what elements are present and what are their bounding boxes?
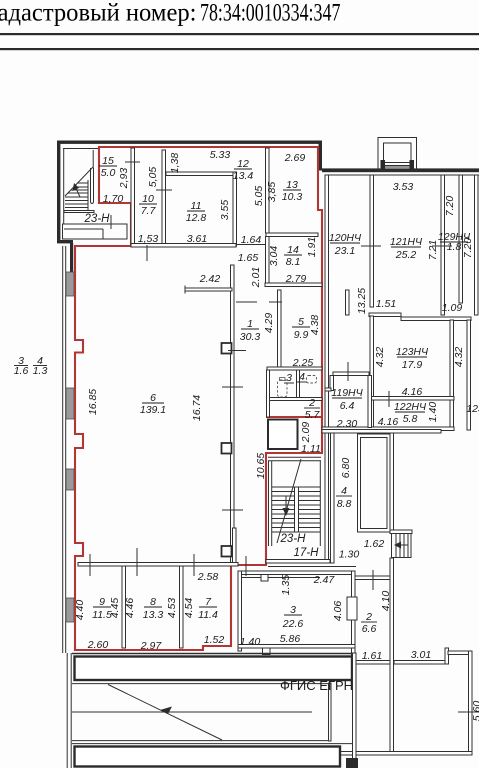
- svg-text:2.25: 2.25: [292, 357, 314, 369]
- bottom-right room step horizontal: [448, 651, 472, 655]
- wall room13 left: [266, 148, 270, 233]
- room3 bottom wall: [238, 645, 355, 649]
- svg-text:23-Н: 23-Н: [84, 213, 111, 225]
- svg-text:5: 5: [298, 316, 304, 328]
- svg-text:Кадастровый номер:: Кадастровый номер:: [0, 0, 197, 27]
- wall 121-129 divider: [441, 175, 445, 315]
- svg-text:4.29: 4.29: [263, 313, 275, 334]
- svg-text:ФГИС ЕГРН: ФГИС ЕГРН: [280, 678, 353, 693]
- wall 123 bottom: [370, 397, 454, 401]
- tick x246: [245, 556, 247, 576]
- svg-text:1.51: 1.51: [376, 298, 396, 310]
- svg-text:1: 1: [247, 318, 253, 330]
- red elevator box top edge: [266, 416, 322, 418]
- wall room13 bottom: [266, 233, 318, 237]
- svg-text:5.60: 5.60: [471, 701, 479, 722]
- room label 129/1.8: [438, 231, 471, 253]
- svg-text:22.6: 22.6: [282, 618, 304, 630]
- svg-text:2.69: 2.69: [284, 152, 306, 164]
- svg-text:10.3: 10.3: [282, 191, 303, 203]
- thin bar wall near 13.25: [346, 290, 350, 315]
- svg-text:1.91: 1.91: [306, 237, 318, 257]
- tick x137: [136, 548, 138, 576]
- svg-text:17-Н: 17-Н: [294, 547, 320, 559]
- wall stub 2.42: [185, 288, 232, 291]
- ramp bottom lines: [72, 740, 330, 742]
- svg-text:1.11: 1.11: [301, 443, 321, 455]
- corridor 17-H bottom wall: [238, 571, 355, 575]
- upper staircase rail line to top: [92, 150, 94, 168]
- stairwell top double line: [268, 456, 321, 458]
- wall 129 right: [459, 175, 463, 303]
- svg-text:3.01: 3.01: [411, 649, 431, 661]
- svg-text:3.53: 3.53: [393, 181, 414, 193]
- elevator shaft box: [268, 420, 298, 450]
- band right wall: [353, 653, 357, 768]
- stairwell arrow: [285, 496, 287, 512]
- room label 1/30.3: [240, 318, 261, 343]
- svg-text:1.40: 1.40: [427, 402, 439, 423]
- column on room6 wall 3: [222, 546, 232, 557]
- wall exterior top right section: [322, 168, 479, 172]
- svg-text:1.30: 1.30: [339, 549, 360, 561]
- wall room6 right: [231, 265, 235, 563]
- svg-text:12.8: 12.8: [186, 212, 207, 224]
- svg-text:2.97: 2.97: [140, 640, 163, 652]
- room label 6/139.1: [140, 392, 166, 416]
- svg-text:5.7: 5.7: [305, 409, 321, 421]
- svg-text:4.53: 4.53: [166, 598, 178, 619]
- svg-text:15: 15: [102, 155, 114, 167]
- svg-text:4.32: 4.32: [453, 347, 465, 368]
- svg-text:2.30: 2.30: [336, 418, 358, 430]
- svg-text:4.46: 4.46: [124, 598, 136, 619]
- svg-text:6.4: 6.4: [340, 400, 355, 412]
- dim line room1: [236, 301, 257, 303]
- svg-text:2.79: 2.79: [285, 273, 307, 285]
- wall room11 top: [166, 172, 233, 176]
- upper staircase center line: [87, 180, 89, 211]
- wall y244 under rooms 10-11: [131, 244, 236, 248]
- svg-text:12: 12: [237, 158, 249, 170]
- under-stair landing box 23-H: [63, 224, 128, 239]
- leader tick 23-H: [110, 215, 112, 229]
- svg-text:1.61: 1.61: [362, 650, 382, 662]
- room label 9/11.5: [92, 596, 112, 621]
- svg-text:5.86: 5.86: [280, 633, 301, 645]
- upper staircase bottom line: [64, 211, 94, 213]
- svg-text:11: 11: [191, 200, 202, 212]
- svg-text:8.8: 8.8: [337, 498, 352, 510]
- wall right lower column: [467, 320, 471, 430]
- bottom-right room right wall: [469, 651, 473, 755]
- room label 10/7.7: [139, 193, 157, 217]
- svg-text:2.42: 2.42: [199, 273, 221, 285]
- stairwell bottom wall: [266, 560, 330, 564]
- svg-text:30.3: 30.3: [240, 331, 261, 343]
- svg-text:2.01: 2.01: [250, 267, 262, 288]
- room label 121/25.2: [390, 236, 423, 261]
- room3 right wall: [352, 571, 356, 682]
- toilet label 4: [297, 371, 307, 383]
- wall 123 left: [370, 316, 374, 430]
- room label 123/17.9: [396, 346, 429, 371]
- svg-text:4.10: 4.10: [380, 591, 392, 612]
- wall 119 notch: [330, 376, 334, 391]
- tick y190 on wall x162: [156, 189, 172, 191]
- room4 zone top wall: [322, 430, 441, 434]
- tick on room6 wall y350: [228, 350, 246, 352]
- inner top wall line left: [63, 148, 99, 150]
- small black block bottom: [346, 758, 358, 768]
- svg-text:5.8: 5.8: [403, 413, 418, 425]
- upper staircase treads upper flight: [78, 182, 88, 184]
- wall left of toilets down to elevator: [267, 370, 270, 417]
- wall above little stair: [390, 530, 412, 534]
- svg-text:13: 13: [286, 179, 298, 191]
- toilet label 3: [284, 372, 294, 384]
- tick x90: [89, 554, 91, 576]
- wall rooms 8-7 divider: [180, 566, 184, 648]
- svg-text:121НЧ: 121НЧ: [390, 236, 423, 248]
- upper staircase U rail: [91, 168, 94, 204]
- svg-text:16.74: 16.74: [191, 395, 203, 421]
- svg-text:7.21: 7.21: [427, 240, 439, 260]
- tick on y246 at x441: [432, 245, 452, 247]
- room label 7/11.4: [198, 596, 218, 621]
- svg-text:1.52: 1.52: [204, 634, 225, 646]
- header rule 1: [0, 33, 479, 35]
- stairwell middle rail: [295, 487, 299, 532]
- svg-text:1,38: 1,38: [169, 153, 181, 174]
- tick 5.60: [458, 711, 479, 713]
- header rule 2: [0, 48, 479, 50]
- room label 3/1.6 small: [14, 355, 29, 377]
- room3 top notch: [261, 575, 268, 582]
- room label 8/13.3: [143, 596, 164, 621]
- svg-text:23-Н: 23-Н: [280, 533, 307, 545]
- svg-text:3.04: 3.04: [268, 246, 280, 267]
- corridor wall y318 right part: [401, 317, 471, 321]
- bottom-right room step vertical: [445, 648, 449, 664]
- wall right edge column: [475, 175, 479, 315]
- room label 3/22.6: [282, 604, 304, 630]
- svg-text:11.4: 11.4: [198, 609, 218, 621]
- svg-text:2: 2: [308, 397, 315, 409]
- svg-text:4.54: 4.54: [183, 598, 195, 619]
- toilet fixture sink dashed: [307, 376, 317, 384]
- ramp right vertical: [329, 683, 332, 741]
- svg-text:4.32: 4.32: [374, 347, 386, 368]
- svg-text:1.6: 1.6: [14, 365, 29, 377]
- corridor 17-H lower thin line: [268, 566, 356, 568]
- svg-text:1.09: 1.09: [442, 302, 463, 314]
- window in left wall 4: [66, 598, 74, 622]
- room label 14/8.1: [284, 244, 302, 268]
- svg-text:120НЧ: 120НЧ: [329, 232, 362, 244]
- tick on y246 at x370: [361, 245, 381, 247]
- tick on 119 top wall: [347, 362, 349, 381]
- svg-text:16.85: 16.85: [87, 389, 99, 415]
- svg-text:5.33: 5.33: [210, 149, 231, 161]
- porch box A: [75, 657, 353, 681]
- svg-text:4: 4: [341, 485, 347, 497]
- svg-text:4.06: 4.06: [332, 601, 344, 622]
- window in left wall 1: [66, 272, 74, 296]
- tick on 122 wall: [388, 391, 390, 407]
- tick on room6 wall y510: [222, 509, 243, 511]
- room3 bottom notch: [263, 648, 271, 655]
- svg-text:13.3: 13.3: [143, 609, 164, 621]
- svg-text:1,53: 1,53: [138, 233, 159, 245]
- room2 right wall: [390, 558, 394, 752]
- room label 4/8.8: [336, 485, 352, 510]
- wall rooms 9-8 divider: [122, 566, 126, 648]
- svg-text:23.1: 23.1: [334, 245, 355, 257]
- room label 119/6.4: [331, 387, 363, 412]
- svg-text:139.1: 139.1: [140, 404, 166, 416]
- room label 2/5.7: [304, 397, 320, 421]
- svg-text:3: 3: [290, 604, 296, 616]
- column on room6 wall 1: [222, 343, 232, 354]
- ramp diagonal: [108, 685, 222, 741]
- svg-text:1.64: 1.64: [241, 234, 262, 246]
- left exterior wall double line: [62, 246, 64, 653]
- red premise boundary main loop: [75, 147, 322, 650]
- svg-text:5,05: 5,05: [147, 167, 159, 188]
- wall 120-121 divider: [370, 175, 374, 307]
- svg-text:4.45: 4.45: [109, 598, 121, 619]
- svg-text:123НЧ: 123НЧ: [396, 346, 429, 358]
- wall x233 upper: [233, 172, 237, 246]
- svg-text:13.25: 13.25: [356, 288, 368, 314]
- svg-text:1.62: 1.62: [364, 538, 385, 550]
- wall exterior left upper: [57, 141, 60, 244]
- svg-text:2,93: 2,93: [118, 168, 130, 190]
- tick x194: [193, 554, 195, 576]
- wall 119 top: [333, 372, 369, 376]
- svg-text:5.0: 5.0: [101, 167, 116, 179]
- svg-text:4.16: 4.16: [402, 386, 423, 398]
- svg-text:3.61: 3.61: [187, 233, 207, 245]
- wall step bottom of 23-H: [57, 240, 73, 243]
- svg-text:25.2: 25.2: [395, 249, 417, 261]
- stairwell right rail: [319, 461, 321, 546]
- room3 left wall: [238, 571, 242, 651]
- wall exterior corner step right of room 13: [319, 141, 323, 171]
- svg-text:1.35: 1.35: [280, 575, 292, 596]
- svg-text:4.38: 4.38: [309, 315, 321, 336]
- svg-text:6.6: 6.6: [362, 623, 377, 635]
- svg-text:8.1: 8.1: [286, 256, 301, 268]
- stairwell left rail: [271, 461, 273, 546]
- svg-text:7.7: 7.7: [141, 205, 157, 217]
- svg-text:17.9: 17.9: [402, 359, 423, 371]
- room label 4/1.3 small: [33, 355, 48, 377]
- window in left wall 2: [66, 388, 74, 419]
- tick y162 on wall x131: [125, 161, 140, 163]
- svg-text:7.20: 7.20: [444, 196, 456, 217]
- door line in y244 wall: [236, 244, 266, 246]
- wall room15 right: [131, 148, 135, 244]
- wall toilets divider: [297, 370, 300, 398]
- left exterior wall lower: [66, 653, 68, 768]
- room label 2/6.6: [361, 611, 377, 635]
- svg-text:122НЧ: 122НЧ: [394, 401, 427, 413]
- svg-text:9.9: 9.9: [294, 329, 309, 341]
- wall toilets top: [267, 367, 322, 370]
- svg-text:3,85: 3,85: [266, 182, 278, 203]
- svg-text:4.40: 4.40: [74, 600, 86, 621]
- wall 123 right: [450, 320, 454, 430]
- spine wall x325: [325, 175, 329, 563]
- svg-text:1,70: 1,70: [103, 193, 124, 205]
- svg-text:2.58: 2.58: [197, 571, 219, 583]
- corridor band top line: [72, 653, 356, 655]
- room label 120/23.1: [329, 232, 362, 257]
- svg-text:7.20: 7.20: [462, 238, 474, 259]
- wall x279 rooms 1-5 divider: [278, 290, 282, 367]
- room label 15/5.0: [99, 155, 117, 179]
- svg-text:1.8: 1.8: [447, 241, 462, 253]
- svg-text:3: 3: [286, 372, 292, 384]
- svg-text:4: 4: [299, 371, 305, 383]
- toilet fixture WC dashed: [278, 380, 288, 397]
- svg-text:2.09: 2.09: [300, 422, 312, 444]
- wall room14 left: [266, 237, 270, 284]
- tick on room6 wall y387: [222, 386, 243, 388]
- svg-text:6.80: 6.80: [340, 458, 352, 479]
- room label 13/10.3: [282, 179, 303, 203]
- ramp mid line: [72, 711, 312, 713]
- bottom-right room top wall: [394, 661, 445, 665]
- room label 12/13.4: [233, 158, 254, 182]
- svg-text:78:34:0010334:347: 78:34:0010334:347: [200, 0, 341, 26]
- stairwell diagonal: [277, 459, 301, 543]
- ramp area top line: [72, 683, 330, 685]
- wall left of 17-H corridor: [233, 528, 237, 565]
- tick below 1.53: [146, 245, 148, 261]
- svg-text:10.65: 10.65: [255, 453, 267, 479]
- column on room6 wall 2: [222, 443, 232, 454]
- wall room10 right: [162, 150, 166, 244]
- svg-text:9: 9: [99, 596, 105, 608]
- room label 11/12.8: [186, 200, 207, 224]
- svg-text:3.55: 3.55: [219, 200, 231, 221]
- wall 122 row bottom: [322, 427, 454, 431]
- svg-text:2.47: 2.47: [313, 574, 336, 586]
- svg-text:13.4: 13.4: [233, 170, 254, 182]
- bottom-right room bottom wall: [340, 752, 472, 756]
- svg-text:6: 6: [150, 392, 156, 404]
- room label 122/5.8: [394, 401, 427, 425]
- right room left wall upper: [390, 433, 394, 533]
- wall toilets bottom: [267, 398, 322, 401]
- corridor wall y315 left part: [369, 313, 401, 317]
- window in left wall 3: [66, 469, 74, 490]
- svg-text:10: 10: [142, 193, 154, 205]
- shaft outer: [358, 434, 391, 532]
- room label 5/9.9: [292, 316, 310, 341]
- upper staircase treads lower flight: [65, 196, 88, 198]
- svg-text:5.05: 5.05: [253, 186, 265, 207]
- tick x373: [372, 570, 374, 590]
- svg-text:1.3: 1.3: [33, 365, 48, 377]
- svg-text:123: 123: [466, 403, 479, 415]
- room2 bottom wall: [355, 661, 394, 665]
- svg-text:2: 2: [365, 611, 372, 623]
- svg-text:2.60: 2.60: [87, 639, 109, 651]
- wall exterior top: [57, 141, 322, 144]
- room2 top wall: [355, 576, 390, 580]
- svg-text:1.65: 1.65: [238, 252, 259, 264]
- rooms 9-8-7 top wall: [78, 563, 238, 567]
- porch box B: [75, 747, 341, 767]
- room4 left wall: [331, 433, 335, 563]
- vestibule porch top: [378, 138, 417, 172]
- wall 119 right: [368, 376, 372, 428]
- stairwell treads: [272, 486, 320, 488]
- svg-text:4.16: 4.16: [378, 416, 399, 428]
- svg-text:119НЧ: 119НЧ: [331, 387, 363, 399]
- svg-text:1.40: 1.40: [240, 636, 261, 648]
- upper staircase diagonal: [65, 167, 93, 196]
- little stair box: [392, 534, 412, 558]
- room3 pilaster 4.06: [347, 597, 357, 620]
- little stair arrow: [397, 544, 408, 546]
- wall room14 bottom: [265, 283, 322, 287]
- upper staircase arrow: [75, 186, 80, 197]
- svg-text:8: 8: [150, 596, 156, 608]
- svg-text:14: 14: [287, 244, 299, 256]
